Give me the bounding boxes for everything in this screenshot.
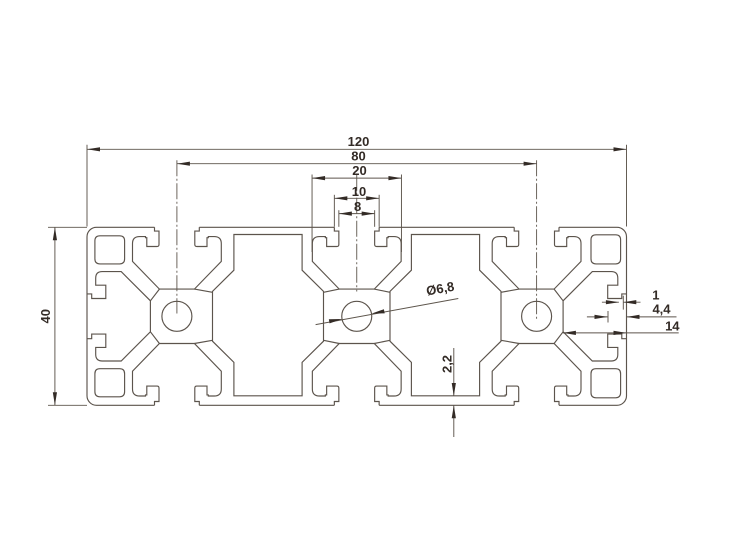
- dimension 120 line: [87, 145, 627, 227]
- dimension 14 line: [563, 331, 679, 335]
- dimension 10 line: [334, 195, 379, 227]
- dimension 20 line: [312, 175, 401, 253]
- dimension 40 line: [48, 227, 87, 405]
- svg-text:8: 8: [354, 199, 361, 214]
- dimension 8 text: [354, 199, 361, 214]
- right end closed slot (1mm wall): [563, 272, 626, 361]
- bottom T-slot centre (8mm): [312, 344, 401, 406]
- svg-text:40: 40: [38, 309, 53, 323]
- top-left corner pocket: [95, 236, 125, 264]
- core web chamfers around bores: [150, 289, 563, 343]
- svg-text:4,4: 4,4: [652, 301, 671, 316]
- dimension 2,2 text: [440, 355, 455, 373]
- svg-text:120: 120: [348, 134, 370, 149]
- dimension 8 line: [339, 210, 375, 227]
- profile outer contour 120x40: [87, 227, 627, 405]
- top T-slot centre (8mm): [312, 227, 401, 289]
- octagonal cavity A (between bores 1-2): [213, 235, 324, 396]
- bottom T-slot left (8mm): [133, 344, 222, 406]
- dimension Ø6,8 text: [425, 279, 455, 299]
- left end closed slot (1mm wall): [87, 272, 150, 361]
- svg-text:2,2: 2,2: [440, 355, 455, 373]
- bottom T-slot right (8mm): [492, 344, 581, 406]
- svg-text:1: 1: [652, 288, 659, 303]
- bottom-left corner pocket: [95, 369, 125, 397]
- dimension 20 text: [352, 163, 366, 178]
- dimension 14 text: [665, 319, 680, 334]
- octagonal cavity B (between bores 2-3): [390, 235, 501, 396]
- dimension 4,4 text: [652, 301, 671, 316]
- svg-text:10: 10: [352, 184, 366, 199]
- dimension 10 text: [352, 184, 366, 199]
- dimension 120 text: [348, 134, 370, 149]
- centreline bore 1: [176, 160, 178, 313]
- centreline bore 3: [536, 160, 538, 321]
- dimension 80 text: [351, 149, 365, 164]
- dimension 1 line: [602, 296, 641, 310]
- dimension 2,2 lines: [452, 348, 456, 437]
- dimension 4,4 line: [587, 311, 677, 323]
- svg-text:20: 20: [352, 163, 366, 178]
- dimension 1 text: [652, 288, 659, 303]
- centre bore 3 Ø6,8: [522, 301, 552, 331]
- svg-text:Ø6,8: Ø6,8: [425, 279, 455, 299]
- leader Ø6,8: [316, 299, 459, 325]
- centre bore 2 Ø6,8: [342, 301, 372, 331]
- top T-slot left (8mm): [133, 227, 222, 289]
- top T-slot right (8mm): [492, 227, 581, 289]
- svg-text:14: 14: [665, 319, 680, 334]
- top-right corner pocket: [591, 235, 621, 264]
- dimension 80 line: [177, 162, 537, 166]
- bottom-right corner pocket: [591, 369, 621, 398]
- svg-text:80: 80: [351, 149, 365, 164]
- centre bore 1 Ø6,8: [162, 301, 192, 331]
- centreline slot 2: [356, 175, 358, 292]
- dimension 40 text: [38, 309, 53, 323]
